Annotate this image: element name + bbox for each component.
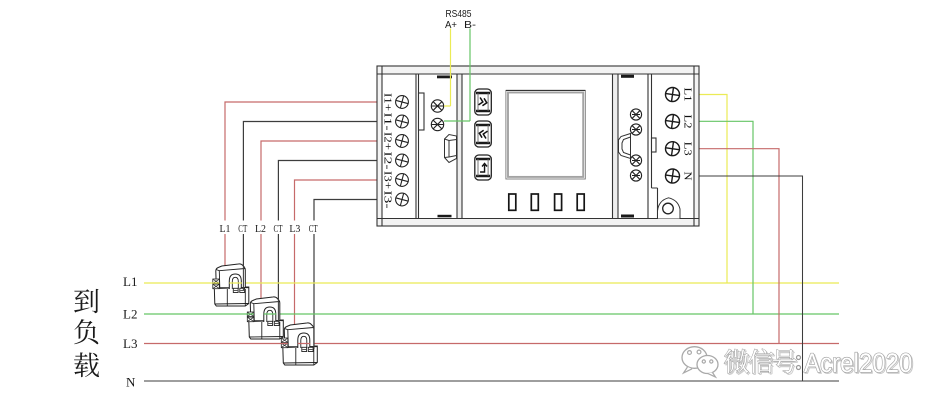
svg-text:I1+: I1+ <box>382 93 393 111</box>
svg-text:L2: L2 <box>123 307 137 322</box>
svg-text:I2+: I2+ <box>382 132 393 150</box>
svg-text:L3: L3 <box>682 142 694 157</box>
svg-text:L1: L1 <box>123 274 137 289</box>
svg-text:L2: L2 <box>682 115 694 129</box>
svg-text:CT: CT <box>238 224 247 235</box>
svg-text:I3-: I3- <box>382 191 393 210</box>
svg-text:L2: L2 <box>255 224 266 235</box>
svg-text:CT: CT <box>309 224 318 235</box>
svg-text:CT: CT <box>274 224 283 235</box>
svg-text:B-: B- <box>464 19 477 31</box>
svg-text:N: N <box>126 375 136 390</box>
svg-text:L3: L3 <box>289 224 300 235</box>
svg-text:A+: A+ <box>445 19 457 31</box>
svg-text:L3: L3 <box>123 336 137 351</box>
svg-text:I1-: I1- <box>382 113 393 132</box>
svg-text:I2-: I2- <box>382 152 393 171</box>
svg-text:N: N <box>682 172 694 181</box>
svg-text:I3+: I3+ <box>382 171 393 189</box>
svg-text:L1: L1 <box>682 88 694 102</box>
svg-text:L1: L1 <box>220 224 231 235</box>
